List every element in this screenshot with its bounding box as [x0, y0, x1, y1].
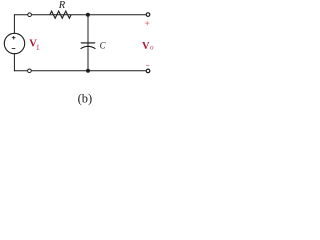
voltage source V1	[4, 33, 24, 53]
wire capacitor branch	[87, 15, 89, 71]
svg-text:o: o	[150, 44, 154, 52]
output terminal top-right	[146, 12, 151, 17]
wire source bottom to rail	[13, 54, 15, 72]
wire top rail	[14, 14, 145, 16]
svg-text:V: V	[142, 41, 150, 52]
node terminal top-left	[27, 12, 32, 17]
wire bottom rail	[14, 70, 145, 72]
node terminal bottom-left	[27, 69, 32, 74]
svg-text:1: 1	[36, 43, 40, 52]
plus output	[145, 21, 149, 25]
wire left branch	[13, 14, 15, 33]
junction bottom	[86, 69, 90, 73]
capacitor C	[81, 43, 96, 49]
svg-text:R: R	[58, 0, 66, 11]
svg-text:(b): (b)	[78, 92, 93, 106]
junction top	[86, 13, 90, 17]
svg-text:C: C	[100, 41, 107, 51]
resistor R	[50, 11, 71, 18]
minus output	[146, 64, 149, 66]
output terminal bottom-right	[146, 69, 151, 74]
